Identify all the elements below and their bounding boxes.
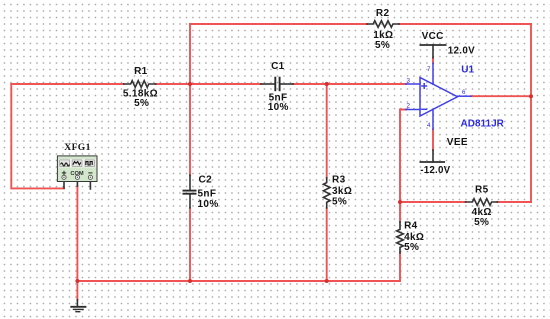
- svg-text:7: 7: [427, 66, 431, 73]
- svg-text:5%: 5%: [474, 217, 489, 228]
- svg-text:10%: 10%: [268, 102, 289, 113]
- svg-text:6: 6: [462, 89, 466, 96]
- svg-text:5%: 5%: [404, 242, 419, 253]
- svg-text:5%: 5%: [134, 98, 149, 109]
- svg-text:R5: R5: [475, 184, 489, 195]
- svg-text:R1: R1: [134, 66, 148, 77]
- svg-text:12.0V: 12.0V: [448, 46, 475, 57]
- svg-text:-12.0V: -12.0V: [420, 165, 450, 176]
- svg-text:4: 4: [427, 122, 431, 129]
- svg-text:VEE: VEE: [447, 137, 468, 148]
- svg-text:2: 2: [407, 103, 411, 110]
- svg-text:R3: R3: [332, 175, 346, 186]
- svg-text:AD811JR: AD811JR: [461, 119, 505, 130]
- svg-text:3: 3: [407, 78, 411, 85]
- svg-text:C1: C1: [271, 61, 285, 72]
- svg-text:VCC: VCC: [422, 31, 444, 42]
- svg-text:10%: 10%: [198, 199, 219, 210]
- svg-text:U1: U1: [461, 64, 474, 75]
- svg-text:XFG1: XFG1: [64, 142, 90, 153]
- svg-text:C2: C2: [199, 175, 213, 186]
- svg-text:5%: 5%: [375, 40, 390, 51]
- svg-text:5%: 5%: [332, 196, 347, 207]
- svg-text:R2: R2: [376, 8, 390, 19]
- svg-text:3kΩ: 3kΩ: [332, 186, 352, 197]
- svg-text:R4: R4: [404, 221, 418, 232]
